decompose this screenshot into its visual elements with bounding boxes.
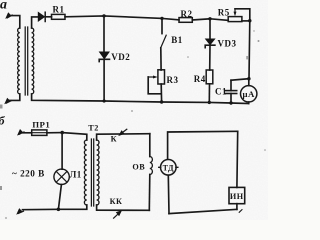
node top of VD2 [102,14,105,17]
svg-text:R3: R3 [167,75,179,85]
wire mains bottom rail [23,205,87,210]
stray speckles [0,30,266,219]
zener diode VD3 [205,39,215,48]
node R4 bottom [208,101,211,104]
diode VD1 [38,12,45,21]
wire node to R2 [162,18,179,20]
svg-text:a: a [0,0,8,13]
svg-text:~ 220 В: ~ 220 В [12,168,45,178]
transformer T1 core [25,27,28,95]
R3 wiper arrow and loop [148,76,161,94]
wire primary top lead [10,16,19,28]
zener diode VD2 [99,52,109,62]
wire T2 secondary top lead [97,134,150,140]
svg-text:R4: R4 [194,74,206,84]
potentiometer R5 body [228,17,242,22]
wire loop2 right upper [236,131,239,187]
svg-text:К: К [111,135,117,144]
wire OB branch lower [148,175,151,211]
svg-text:R5: R5 [218,8,230,18]
indicator IN box [229,187,245,203]
transformer T1 primary winding [18,28,20,94]
resistor R1 [52,14,66,19]
svg-text:КК: КК [110,197,123,206]
wire VD3 branch upper [209,19,211,39]
terminal arrow bottom-left mains [16,208,23,215]
lamp L1 [54,169,69,184]
stray mark near loop2 corner [239,210,242,213]
node lamp top [60,131,64,135]
terminal arrow top-left mains [17,129,24,136]
svg-text:ОВ: ОВ [132,162,145,171]
wire VD2 branch upper [103,16,105,52]
node R3 bottom [160,100,163,103]
wire IN to bottom [236,204,238,210]
terminal arrow top-left input [5,12,12,19]
node meter top [247,77,250,80]
svg-text:б: б [0,114,6,128]
wire loop2 top [168,131,238,159]
wire fuse to lamp node [47,132,62,134]
wire bottom rail circuit a [32,94,249,104]
svg-text:C1: C1 [215,87,227,97]
wire primary bottom lead [10,94,20,100]
wire lamp branch lower [58,185,61,210]
wire VD2 branch lower [103,59,105,101]
svg-text:ТД: ТД [163,163,174,172]
wire VD3 node to R5 [210,19,228,21]
node top of VD3 [208,17,211,20]
node lamp bottom [57,208,61,212]
svg-text:VD2: VD2 [111,52,130,62]
svg-text:R1: R1 [53,5,65,15]
svg-text:T2: T2 [88,123,99,132]
svg-text:B1: B1 [171,35,183,45]
transformer T1 secondary winding [32,28,34,94]
wire OB branch upper [149,134,151,157]
node B1 top [160,17,163,20]
wire R4 bottom lead [208,84,210,103]
svg-text:ПР1: ПР1 [32,120,50,130]
wire right rail down to meter node [248,21,251,79]
switch B1 [161,18,167,70]
terminal arrow KK [114,210,123,218]
svg-text:Л1: Л1 [70,170,82,180]
winding OB [150,157,153,175]
wire R5 right lead [242,20,250,22]
transformer T2 core [91,139,93,206]
svg-text:ИН: ИН [230,192,244,201]
svg-text:μА: μА [243,89,255,99]
wire loop2 left lower [167,175,170,213]
wire loop2 bottom [169,209,237,213]
terminal arrow bottom-left input [4,98,11,105]
potentiometer R3 body [158,70,165,84]
resistor R4 [206,70,213,84]
transformer T2 secondary winding [97,140,99,205]
wire lamp node to T2 primary [62,133,87,140]
wire lamp branch upper [61,133,63,170]
microammeter PA1 [241,79,257,104]
wire VD1 to R1 [45,16,51,18]
wire R2 to VD3 node [192,19,210,20]
node R5 right [248,19,251,22]
wire C1 top to meter node [231,79,249,81]
transformer T2 primary winding [84,140,86,205]
capacitor C1 [226,80,237,103]
wire R3 bottom lead [160,84,162,102]
node VD2 bottom [103,99,106,102]
node C1 bottom [229,101,232,104]
svg-text:VD3: VD3 [218,39,237,49]
wire top rail R1 to B1 node [65,16,162,19]
R5 wiper arrow and loop [234,9,250,21]
svg-text:R2: R2 [181,9,193,19]
fuse PR1 [32,130,47,136]
motor TD [159,160,178,176]
wire secondary top lead [32,17,38,28]
wire mains top to fuse [23,132,32,134]
wire VD3 to R4 [209,45,211,70]
wire T2 secondary bottom lead [97,205,150,210]
resistor R2 [179,18,192,23]
terminal arrow K [118,129,127,136]
paper noise [0,0,1,1]
